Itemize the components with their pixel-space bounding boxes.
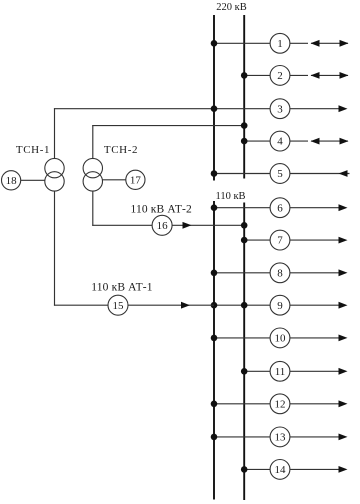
wire TSN-2 down riser to AT-2 line: [92, 191, 94, 226]
feeder line 3 wire: [54, 108, 346, 110]
svg-text:ТСН-1: ТСН-1: [16, 144, 50, 156]
junction on bus for feeder 10: [211, 335, 218, 342]
arrow feeder 11: [339, 368, 348, 375]
breaker circle 1: [270, 33, 290, 53]
breaker circle 15: [108, 295, 128, 315]
svg-text:13: 13: [275, 432, 287, 444]
wire circle 18 stub: [21, 179, 45, 181]
svg-text:17: 17: [130, 174, 142, 186]
wire TSN-1 down riser to AT-1 line: [54, 191, 56, 306]
svg-text:6: 6: [277, 202, 283, 214]
arrow feeder 4: [311, 138, 349, 145]
svg-text:8: 8: [277, 267, 283, 279]
label 220 kV: [216, 2, 246, 13]
svg-text:7: 7: [277, 235, 283, 247]
svg-text:110 кВ АТ-1: 110 кВ АТ-1: [91, 281, 152, 293]
junction on bus for feeder 14: [241, 466, 248, 473]
junction on bus for feeder 5: [211, 170, 218, 177]
bus W4: 110 kV busbar section 2: [243, 203, 245, 501]
junction AT-2 on bus W4: [241, 222, 248, 229]
svg-text:1: 1: [277, 38, 283, 50]
wire AT-2 connection: [92, 224, 244, 226]
arrow AT-1 direction: [181, 302, 190, 309]
breaker circle 3: [270, 99, 290, 119]
feeder line 4 wire: [244, 140, 348, 142]
label TSN-1: [16, 144, 50, 156]
label 110 kV AT-2: [131, 203, 192, 215]
breaker circle 13: [270, 427, 290, 447]
breaker circle 11: [270, 361, 290, 381]
junction on bus for feeder 6: [211, 204, 218, 211]
junction on bus for feeder 1: [211, 40, 218, 47]
breaker circle 6: [270, 198, 290, 218]
svg-text:2: 2: [277, 70, 283, 82]
bus W3: 110 kV busbar section 1: [213, 201, 215, 500]
svg-text:5: 5: [277, 168, 283, 180]
feeder line 6 wire: [214, 207, 346, 209]
arrow AT-2 direction: [183, 222, 192, 229]
junction on bus for feeder 4: [241, 138, 248, 145]
junction on bus for feeder 13: [211, 434, 218, 441]
breaker circle 2: [270, 66, 290, 86]
arrow feeder 14: [339, 466, 348, 473]
arrow feeder 1: [311, 40, 349, 47]
bus W2: 220 kV busbar section 2: [243, 15, 245, 179]
junction on bus for feeder 7: [241, 237, 248, 244]
svg-text:110 кВ АТ-2: 110 кВ АТ-2: [131, 203, 192, 215]
svg-text:12: 12: [275, 398, 286, 410]
bus W1: 220 kV busbar section 1: [213, 15, 215, 181]
breaker circle 16: [152, 215, 172, 235]
svg-text:220 кВ: 220 кВ: [216, 2, 246, 13]
breaker circle 5: [270, 164, 290, 184]
wire TSN-1 riser to 220 kV bus (row 3): [54, 108, 56, 159]
junction TSN-2 on bus W2: [241, 122, 248, 129]
arrow feeder 13: [339, 434, 348, 441]
feeder line 13 wire: [214, 436, 346, 438]
wire AT-1 connection from TSN-1 riser to 110 kV buses: [54, 304, 214, 306]
breaker circle 4: [270, 131, 290, 151]
feeder line 11 wire: [244, 370, 345, 372]
svg-text:11: 11: [275, 366, 286, 378]
svg-text:9: 9: [277, 300, 283, 312]
wire TSN-2 riser up: [92, 125, 94, 159]
svg-text:3: 3: [277, 103, 283, 115]
svg-text:15: 15: [113, 300, 125, 312]
label TSN-2: [104, 144, 138, 156]
breaker circle 9: [270, 295, 290, 315]
breaker circle 8: [270, 263, 290, 283]
breaker circle 10: [270, 328, 290, 348]
breaker circle 14: [270, 460, 290, 480]
arrow feeder 2: [311, 72, 349, 79]
feeder line 14 wire: [244, 468, 345, 470]
feeder line 9 wire: [214, 304, 346, 306]
arrow feeder 5: [339, 170, 348, 177]
svg-text:16: 16: [157, 220, 169, 232]
breaker circle 12: [270, 394, 290, 414]
wire circle 17 stub: [103, 179, 126, 181]
wire TSN-2 top connection to 220 kV bus 2: [92, 125, 244, 127]
breaker circle 17: [126, 170, 145, 189]
breaker circle 7: [270, 230, 290, 250]
feeder line 2 wire: [244, 74, 348, 76]
svg-text:ТСН-2: ТСН-2: [104, 144, 138, 156]
svg-text:10: 10: [275, 333, 287, 345]
svg-text:110 кВ: 110 кВ: [215, 191, 245, 202]
feeder line 8 wire: [214, 272, 346, 274]
breaker circle 18: [2, 171, 21, 190]
feeder line 12 wire: [214, 403, 346, 405]
svg-text:14: 14: [275, 464, 287, 476]
label 110 kV: [215, 191, 245, 202]
label 110 kV AT-1: [91, 281, 152, 293]
arrow feeder 8: [339, 269, 348, 276]
transformer TSN-1: [45, 158, 64, 191]
arrow feeder 9: [339, 302, 348, 309]
feeder line 5 wire: [214, 173, 350, 175]
arrow feeder 3: [339, 105, 348, 112]
junction on bus for feeder 12: [211, 401, 218, 408]
svg-text:18: 18: [6, 175, 18, 187]
arrow feeder 12: [339, 400, 348, 407]
junction on bus for feeder 2: [241, 72, 248, 79]
arrow feeder 7: [339, 237, 348, 244]
junction on bus for feeder 11: [241, 368, 248, 375]
arrow feeder 6: [339, 204, 348, 211]
transformer TSN-2: [83, 158, 102, 191]
junction on bus for feeder 3: [211, 105, 218, 112]
junction on bus for feeder 9: [211, 302, 248, 309]
feeder line 1 wire: [214, 42, 348, 44]
arrow feeder 10: [339, 335, 348, 342]
feeder line 7 wire: [244, 239, 345, 241]
junction on bus for feeder 8: [211, 270, 218, 277]
feeder line 10 wire: [214, 337, 346, 339]
svg-text:4: 4: [277, 136, 283, 148]
